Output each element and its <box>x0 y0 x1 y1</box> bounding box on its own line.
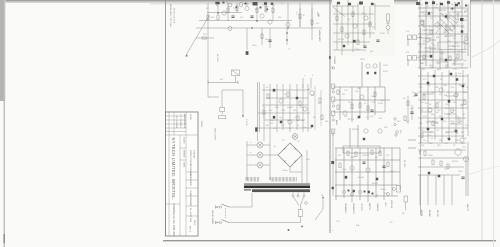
wire <box>221 90 223 107</box>
capacitor C56 <box>414 94 417 96</box>
C114 capacitor <box>448 138 450 140</box>
svg-text:27k: 27k <box>444 169 447 171</box>
connector PL2 <box>331 161 334 164</box>
wire <box>418 7 466 9</box>
arrowhead to aerial <box>185 54 188 57</box>
wire <box>451 175 453 205</box>
lamp LP1 <box>228 3 232 7</box>
svg-text:OSC: OSC <box>443 32 448 34</box>
wire <box>367 148 369 202</box>
wire <box>387 21 389 25</box>
svg-text:BASS: BASS <box>335 120 338 126</box>
svg-text:5k: 5k <box>461 36 463 38</box>
wire <box>299 217 301 223</box>
wire <box>242 90 244 116</box>
wire <box>420 111 432 113</box>
coil L20 <box>425 2 428 4</box>
wire <box>452 11 462 13</box>
wire <box>424 29 434 31</box>
resistor R100 <box>423 55 425 60</box>
wire <box>467 74 469 136</box>
transistor Q58 <box>373 64 377 68</box>
coil L12 <box>359 1 363 4</box>
svg-text:EARTH: EARTH <box>466 204 469 211</box>
wire <box>332 5 358 7</box>
resistor R97 <box>421 20 423 25</box>
resistor R61 <box>337 90 339 95</box>
wire <box>196 37 214 39</box>
C136 capacitor <box>465 5 467 7</box>
fuse FS1 <box>298 210 302 217</box>
junction <box>322 197 323 198</box>
pin <box>332 67 334 69</box>
wire <box>257 132 259 141</box>
wire <box>454 2 456 66</box>
pin <box>332 105 334 107</box>
transistor Q68 <box>343 111 347 115</box>
wire <box>216 206 220 208</box>
wire <box>332 130 334 196</box>
svg-text:SK4: SK4 <box>399 130 401 133</box>
wire <box>418 149 466 151</box>
svg-text:47u: 47u <box>366 117 369 119</box>
wire <box>269 132 271 140</box>
C133 capacitor <box>438 175 440 177</box>
wire <box>216 222 220 224</box>
C105 capacitor <box>433 75 435 77</box>
wire <box>333 13 374 15</box>
svg-text:AMENDMENTS: AMENDMENTS <box>183 114 186 129</box>
terminal chassis <box>305 202 308 205</box>
wire <box>289 84 291 132</box>
resistor R13 <box>217 15 219 20</box>
svg-text:47k: 47k <box>451 87 454 89</box>
svg-text:DRAWING No. NC. 1003. 97A.: DRAWING No. NC. 1003. 97A. <box>172 204 175 237</box>
tap terminal 298 <box>297 195 299 197</box>
wire <box>227 3 229 21</box>
wire <box>315 209 323 220</box>
resistor R51 <box>352 12 354 17</box>
transformer T1 secondary winding <box>271 177 296 182</box>
svg-text:4u: 4u <box>431 60 433 62</box>
svg-text:AM ANT: AM ANT <box>428 210 431 218</box>
wire <box>383 148 385 200</box>
svg-text:22n: 22n <box>428 135 431 137</box>
wire <box>229 222 300 224</box>
wire <box>420 37 432 39</box>
wire <box>262 89 310 91</box>
svg-text:39k: 39k <box>436 37 439 39</box>
resistor R63 <box>351 104 353 109</box>
resistor R40 <box>297 116 299 121</box>
wire <box>258 127 312 129</box>
svg-text:100n: 100n <box>302 127 306 129</box>
resistor R23 <box>261 34 263 39</box>
wire <box>467 142 469 196</box>
svg-text:OUTPUT: OUTPUT <box>360 203 362 212</box>
wire <box>407 38 409 46</box>
svg-text:b: b <box>250 152 251 154</box>
wire <box>359 148 361 200</box>
wire <box>246 177 248 180</box>
wire <box>299 8 301 27</box>
svg-text:DATE: DATE <box>183 162 186 168</box>
capacitor C82 <box>362 162 365 164</box>
coil L24 <box>455 4 458 6</box>
svg-text:100n: 100n <box>440 53 444 55</box>
resistor R18 <box>272 8 274 13</box>
resistor R37 <box>299 101 301 106</box>
svg-text:SK1: SK1 <box>331 66 333 69</box>
resistor R140 <box>404 116 406 121</box>
coil L2 <box>264 2 267 4</box>
transistor Q115 <box>439 88 443 92</box>
wire <box>363 6 365 48</box>
wire <box>426 121 438 123</box>
wire <box>266 97 308 99</box>
wire <box>367 87 369 120</box>
wire <box>444 35 456 37</box>
svg-text:18k: 18k <box>453 102 456 104</box>
C4 capacitor <box>260 7 262 9</box>
output terminal <box>393 188 396 191</box>
wire <box>320 90 322 126</box>
svg-text:97A: 97A <box>189 218 192 222</box>
C89 capacitor <box>364 191 366 193</box>
wire <box>207 82 209 97</box>
transistor Q34 <box>288 120 292 124</box>
wire <box>470 0 472 68</box>
svg-text:CTA 252: CTA 252 <box>193 150 196 159</box>
capacitor C139 <box>410 112 413 114</box>
C2 capacitor <box>245 3 247 5</box>
coil L21 <box>432 1 435 4</box>
wire <box>418 142 466 144</box>
C27 capacitor <box>296 97 298 99</box>
wire <box>333 32 375 34</box>
svg-text:220R: 220R <box>380 33 385 35</box>
svg-text:SPEAKER L: SPEAKER L <box>344 203 347 214</box>
transistor Q92 <box>450 26 454 30</box>
svg-text:10n: 10n <box>255 9 258 11</box>
C135 capacitor <box>458 2 460 4</box>
wire <box>207 12 242 14</box>
wire <box>418 51 466 53</box>
resistor R101 <box>449 56 451 61</box>
svg-text:47k: 47k <box>316 23 319 25</box>
C70 capacitor <box>358 116 360 118</box>
C88 capacitor <box>348 190 350 192</box>
wire <box>286 28 288 45</box>
svg-text:NYTECH LIMITED. BRISTOL.: NYTECH LIMITED. BRISTOL. <box>171 138 176 201</box>
mains terminal L <box>216 206 218 209</box>
junction <box>287 27 288 28</box>
resistor R36 <box>287 92 289 97</box>
switch S1b <box>222 220 230 223</box>
wire <box>235 76 237 83</box>
svg-text:1000u: 1000u <box>282 170 288 172</box>
wire <box>263 132 265 141</box>
resistor R17 <box>265 6 267 11</box>
transistor Q42 <box>386 26 390 30</box>
C137 capacitor <box>452 8 454 10</box>
junction <box>217 12 218 13</box>
svg-text:No. 1003: No. 1003 <box>189 208 191 218</box>
C109 capacitor <box>427 82 429 84</box>
svg-text:2k: 2k <box>466 9 468 11</box>
wire <box>391 148 393 196</box>
fuse lamp F4 <box>292 134 298 140</box>
svg-text:47k: 47k <box>423 79 426 81</box>
preset VR1 <box>408 35 421 40</box>
title block revision text <box>175 114 191 129</box>
wire <box>418 174 460 176</box>
C53 capacitor <box>343 45 345 47</box>
wire <box>467 4 469 56</box>
resistor R130 <box>440 161 442 166</box>
svg-text:47k: 47k <box>406 31 409 33</box>
C103 capacitor <box>430 55 432 58</box>
svg-text:DRAWN: DRAWN <box>183 150 186 158</box>
svg-text:22n: 22n <box>362 13 365 15</box>
C108 capacitor <box>462 85 464 87</box>
resistor R47 <box>341 27 343 32</box>
transformer T1 core <box>244 184 310 193</box>
svg-text:AERIAL INPUT 75R COAX: AERIAL INPUT 75R COAX <box>169 4 172 27</box>
transistor Q57 <box>366 64 370 68</box>
svg-text:FM 75R: FM 75R <box>436 210 438 217</box>
wire <box>247 164 257 166</box>
wire <box>452 63 464 65</box>
wire <box>419 175 421 205</box>
wire <box>407 96 409 124</box>
C113 capacitor <box>455 130 457 132</box>
resistor R35 <box>267 94 269 99</box>
pin <box>332 119 334 121</box>
resistor R25 <box>202 37 207 39</box>
wire <box>445 24 447 32</box>
switch bank S4 <box>343 146 380 153</box>
coil L13 <box>371 3 374 5</box>
C26 capacitor <box>273 89 275 92</box>
svg-text:AFC AMP: AFC AMP <box>216 54 219 63</box>
wire <box>258 112 310 114</box>
svg-text:TUNER: TUNER <box>189 190 191 198</box>
svg-text:CIRCUIT DETAIL MODEL: CIRCUIT DETAIL MODEL <box>189 150 192 176</box>
earth stud <box>301 226 302 227</box>
wire <box>258 82 260 132</box>
wire <box>418 75 468 77</box>
capacitor C24 <box>268 40 271 42</box>
wire <box>375 148 377 198</box>
wire <box>246 28 248 50</box>
wire <box>269 28 271 48</box>
wire <box>335 159 400 161</box>
svg-text:22n: 22n <box>423 140 426 142</box>
wire <box>418 127 468 129</box>
svg-text:MAINS INPUT: MAINS INPUT <box>318 30 321 43</box>
tap terminal 293 <box>292 195 294 197</box>
connector PL3 <box>332 187 334 189</box>
svg-text:SHT 1: SHT 1 <box>189 226 191 233</box>
resistor R124 <box>458 118 460 123</box>
resistor R49 <box>363 30 365 35</box>
svg-text:6v: 6v <box>288 48 290 50</box>
transformer T1 primary winding <box>246 177 259 182</box>
wire <box>269 177 271 180</box>
socket pin <box>394 123 396 125</box>
wire <box>263 144 270 146</box>
resistor R76 <box>371 150 373 155</box>
svg-text:1n: 1n <box>465 49 467 51</box>
wire <box>374 87 376 115</box>
svg-text:AERIAL: AERIAL <box>420 210 423 217</box>
svg-text:CHASSIS: CHASSIS <box>376 203 379 212</box>
wire <box>418 67 468 69</box>
wire <box>418 107 468 109</box>
wire <box>439 2 441 70</box>
wire <box>333 7 345 17</box>
fuse lamp F2 <box>257 152 263 158</box>
svg-text:POWER: POWER <box>189 198 191 207</box>
C52 capacitor <box>353 40 356 43</box>
wire <box>292 192 294 194</box>
wire <box>418 15 468 17</box>
wire <box>217 3 219 13</box>
svg-text:22k: 22k <box>386 155 389 157</box>
coil L1 <box>253 2 258 5</box>
IC U2 <box>438 42 465 50</box>
transistor Q127 <box>464 157 469 162</box>
C94 capacitor <box>428 12 430 14</box>
wire <box>263 164 270 166</box>
wire <box>332 88 334 91</box>
svg-text:BC109: BC109 <box>338 39 345 41</box>
wire <box>339 87 341 120</box>
wire <box>374 5 390 7</box>
wire tick <box>237 81 239 85</box>
lamp LP2 <box>239 3 243 7</box>
mains terminal N <box>216 221 218 224</box>
svg-text:22k: 22k <box>422 30 425 32</box>
svg-text:220R: 220R <box>383 65 388 67</box>
wire <box>294 197 299 206</box>
wire <box>405 202 407 210</box>
wire <box>465 158 467 196</box>
wire <box>374 3 376 30</box>
svg-text:2u: 2u <box>461 65 463 67</box>
wire tick <box>207 81 209 85</box>
svg-text:1k: 1k <box>302 14 304 16</box>
transistor Q67 <box>360 95 364 99</box>
svg-text:a: a <box>304 75 305 77</box>
resistor R131 <box>447 164 449 169</box>
transistor Q31 <box>279 99 283 103</box>
wire <box>333 49 366 51</box>
resistor R138 <box>407 101 409 106</box>
wire <box>261 28 263 45</box>
C110 capacitor <box>448 100 450 103</box>
svg-text:1n: 1n <box>440 79 442 81</box>
svg-text:2k: 2k <box>439 116 441 118</box>
wire <box>411 105 413 120</box>
resistor R75 <box>355 152 357 157</box>
title block frame <box>166 112 199 236</box>
transistor Q71 <box>364 129 368 133</box>
wire <box>418 99 466 101</box>
wire <box>276 84 278 132</box>
connector strip <box>219 116 226 119</box>
transistor Q30 <box>460 18 463 21</box>
wire <box>446 95 458 97</box>
transistor Q6 <box>228 27 232 31</box>
wire <box>352 6 354 52</box>
resistor R98 <box>430 30 432 35</box>
resistor R77 <box>379 151 381 156</box>
resistor R120 <box>436 103 438 108</box>
wire <box>335 195 398 197</box>
wire <box>269 140 271 180</box>
wire <box>408 147 416 149</box>
wire <box>450 123 462 125</box>
C107 capacitor <box>456 78 458 80</box>
wire <box>351 148 353 202</box>
wire <box>432 0 434 68</box>
wire <box>448 45 460 47</box>
wire <box>462 70 464 138</box>
title block description <box>189 150 196 233</box>
svg-text:22k: 22k <box>270 123 273 125</box>
svg-text:1n: 1n <box>273 5 275 7</box>
wire <box>443 175 445 205</box>
wire <box>422 93 434 95</box>
wire <box>335 171 400 173</box>
earth stud <box>288 229 290 231</box>
coil L22 <box>440 3 443 5</box>
transistor Q43 <box>353 24 357 28</box>
wire <box>335 147 400 149</box>
svg-text:SPEAKER R: SPEAKER R <box>352 203 355 214</box>
svg-text:CHKD: CHKD <box>189 114 191 120</box>
svg-text:+42V: +42V <box>384 202 386 207</box>
capacitor C20 <box>250 16 253 18</box>
resistor R14 <box>227 8 229 13</box>
wire <box>418 135 464 137</box>
wire <box>290 171 302 173</box>
resistor R48 <box>357 40 359 45</box>
wire <box>424 47 436 49</box>
svg-text:SK3: SK3 <box>397 121 400 123</box>
wire <box>427 175 429 205</box>
C85 capacitor <box>376 178 378 180</box>
resistor R119 <box>423 95 425 100</box>
transistor Q126 <box>455 149 461 155</box>
C112 capacitor <box>427 128 429 130</box>
wire <box>457 12 459 20</box>
wire <box>361 62 363 87</box>
wire <box>265 3 267 13</box>
wire <box>418 43 426 45</box>
bridge rectifier D1-D4 <box>278 143 302 167</box>
svg-text:3.3.77 ISSUE 2: 3.3.77 ISSUE 2 <box>179 114 181 129</box>
wire <box>349 128 351 148</box>
wire <box>207 3 209 28</box>
dial lamp LP3 <box>220 107 225 114</box>
svg-text:33k: 33k <box>421 145 424 147</box>
wire <box>369 6 371 38</box>
wire <box>422 131 434 133</box>
transistor Q117 <box>428 108 432 112</box>
